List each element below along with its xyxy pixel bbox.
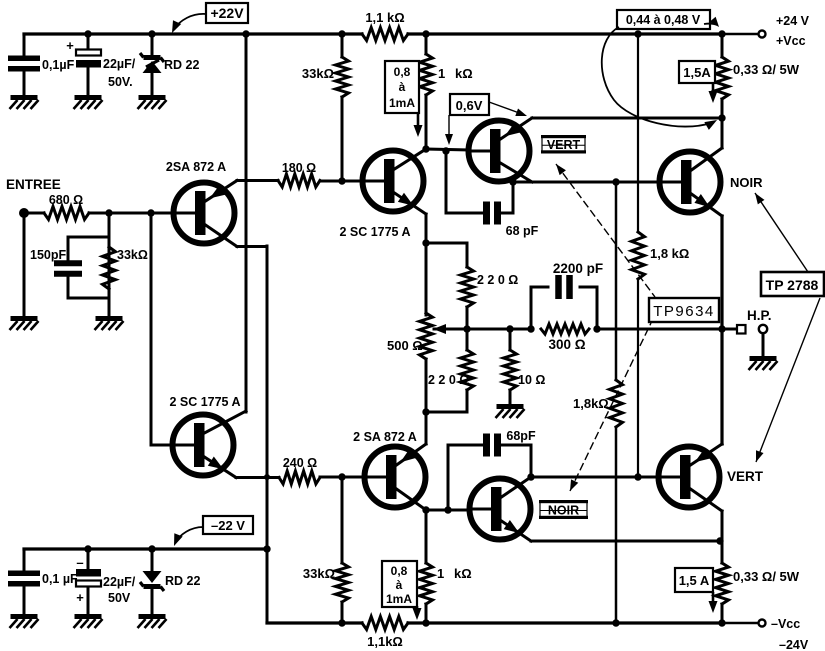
- svg-text:RD 22: RD 22: [164, 58, 199, 72]
- svg-text:1,5A: 1,5A: [683, 65, 711, 80]
- svg-text:RD 22: RD 22: [165, 574, 200, 588]
- svg-text:1: 1: [437, 566, 444, 581]
- svg-text:kΩ: kΩ: [454, 566, 472, 581]
- svg-text:NOIR: NOIR: [730, 175, 763, 190]
- svg-text:22µF/: 22µF/: [103, 57, 136, 71]
- svg-text:1,1kΩ: 1,1kΩ: [367, 634, 403, 649]
- svg-text:33kΩ: 33kΩ: [117, 248, 148, 262]
- svg-text:2 2 0 Ω: 2 2 0 Ω: [477, 273, 518, 287]
- svg-text:0,8: 0,8: [394, 65, 411, 79]
- svg-text:300 Ω: 300 Ω: [548, 337, 585, 352]
- svg-text:2 SC 1775 A: 2 SC 1775 A: [169, 395, 240, 409]
- svg-text:TP 2788: TP 2788: [766, 277, 819, 293]
- svg-text:0,8: 0,8: [391, 564, 408, 578]
- svg-text:kΩ: kΩ: [455, 66, 473, 81]
- svg-text:68 pF: 68 pF: [506, 224, 539, 238]
- svg-text:2 SC 1775 A: 2 SC 1775 A: [339, 225, 410, 239]
- svg-text:2 SA 872 A: 2 SA 872 A: [353, 430, 417, 444]
- svg-text:0,1 µF: 0,1 µF: [42, 572, 78, 586]
- svg-text:H.P.: H.P.: [747, 308, 772, 323]
- svg-text:0,6V: 0,6V: [456, 98, 483, 113]
- svg-text:180 Ω: 180 Ω: [282, 161, 316, 175]
- svg-text:1,1 kΩ: 1,1 kΩ: [365, 10, 404, 25]
- svg-text:+Vcc: +Vcc: [776, 34, 806, 48]
- svg-text:ENTREE: ENTREE: [6, 177, 61, 192]
- svg-text:22µF/: 22µF/: [103, 575, 136, 589]
- svg-text:–24V: –24V: [779, 638, 809, 651]
- svg-text:0,33 Ω/ 5W: 0,33 Ω/ 5W: [733, 569, 800, 584]
- svg-text:1mA: 1mA: [389, 96, 415, 110]
- svg-text:10 Ω: 10 Ω: [518, 373, 545, 387]
- svg-text:1,5 A: 1,5 A: [679, 573, 710, 588]
- svg-text:1,8kΩ: 1,8kΩ: [573, 396, 609, 411]
- svg-text:1,8 kΩ: 1,8 kΩ: [650, 246, 689, 261]
- svg-text:33kΩ: 33kΩ: [302, 66, 334, 81]
- svg-text:TP9634: TP9634: [653, 303, 715, 320]
- svg-text:2 2 0 Ω: 2 2 0 Ω: [428, 373, 469, 387]
- svg-text:–: –: [76, 555, 83, 570]
- svg-text:2200 pF: 2200 pF: [553, 261, 603, 276]
- svg-text:33kΩ: 33kΩ: [303, 566, 335, 581]
- svg-text:–Vcc: –Vcc: [771, 617, 800, 631]
- svg-text:0,1µF: 0,1µF: [42, 58, 75, 72]
- svg-text:240 Ω: 240 Ω: [283, 456, 317, 470]
- svg-text:68pF: 68pF: [506, 429, 536, 443]
- svg-text:500 Ω: 500 Ω: [387, 338, 423, 353]
- svg-text:150pF: 150pF: [30, 248, 66, 262]
- svg-text:680 Ω: 680 Ω: [49, 193, 83, 207]
- svg-text:VERT: VERT: [727, 469, 764, 484]
- svg-text:–22 V: –22 V: [211, 518, 245, 533]
- svg-text:+22V: +22V: [210, 5, 244, 21]
- svg-text:+: +: [76, 590, 84, 605]
- svg-text:+: +: [66, 38, 74, 53]
- svg-text:à: à: [396, 578, 403, 592]
- svg-text:à: à: [399, 80, 406, 94]
- svg-text:50V.: 50V.: [108, 75, 133, 89]
- svg-text:0,33 Ω/ 5W: 0,33 Ω/ 5W: [733, 62, 800, 77]
- svg-text:50V: 50V: [108, 591, 131, 605]
- svg-text:1mA: 1mA: [386, 592, 412, 606]
- svg-text:+24 V: +24 V: [776, 14, 810, 28]
- svg-text:1: 1: [438, 66, 445, 81]
- svg-text:0,44 à 0,48 V: 0,44 à 0,48 V: [626, 13, 701, 27]
- svg-text:2SA 872 A: 2SA 872 A: [166, 160, 226, 174]
